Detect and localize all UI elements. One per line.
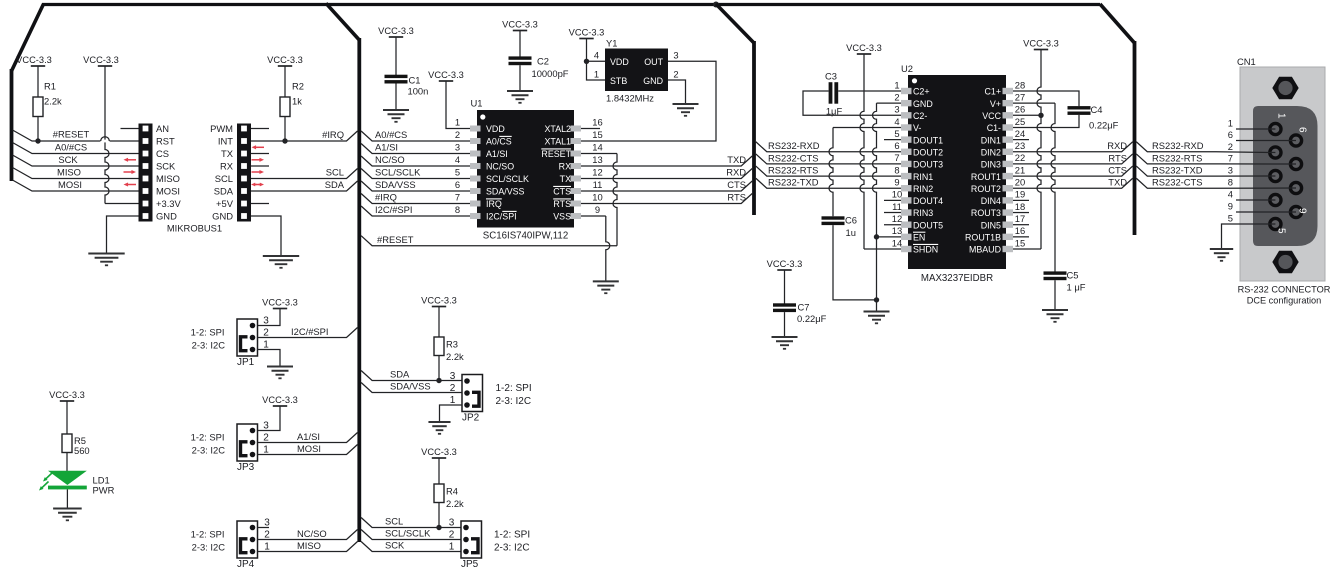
svg-text:TXD: TXD [727,154,746,165]
svg-text:VCC-3.3: VCC-3.3 [16,55,52,65]
svg-text:JP4: JP4 [237,559,255,570]
svg-text:1-2: SPI: 1-2: SPI [191,432,225,443]
wire U2 VCC pin 26 [1013,114,1041,116]
U2 pin 24 stub wire (n.c.) [1013,139,1029,141]
wire RTS from U1 to bus rail 2 [581,194,752,204]
wire A0/#CS from center bus to U1 [361,131,470,141]
wire Y1 OUT to U1 XTAL1 [581,61,716,141]
svg-text:CS: CS [156,148,169,159]
svg-text:DIN4: DIN4 [981,196,1001,206]
svg-text:CTS: CTS [727,179,746,190]
svg-text:+5V: +5V [216,198,234,209]
svg-text:24: 24 [1015,128,1025,139]
wire RS232-CTS from bus rail 2 to U2 [756,154,901,164]
svg-text:5: 5 [1276,228,1287,234]
CN1 pin index 4 wire [1236,199,1275,201]
svg-text:7: 7 [455,192,460,203]
U2 pin 5 stub [901,136,912,142]
U2 pin 11 stub wire (n.c.) [884,212,901,214]
svg-text:SCL/SCLK: SCL/SCLK [375,167,421,178]
svg-text:VCC-3.3: VCC-3.3 [83,55,119,65]
svg-text:MOSI: MOSI [156,186,180,197]
svg-text:2.2k: 2.2k [44,96,62,107]
svg-text:13: 13 [592,154,602,165]
ground (CN1 pin 5) [1210,248,1233,250]
svg-text:27: 27 [1015,91,1025,102]
svg-text:VCC-3.3: VCC-3.3 [428,70,464,80]
svg-text:VCC-3.3: VCC-3.3 [378,26,414,36]
wire #RESET from center bus to U1 RESET [361,236,617,246]
svg-text:OUT: OUT [644,57,663,67]
svg-text:C1+: C1+ [984,87,1001,97]
svg-text:RESET: RESET [541,149,571,159]
svg-text:C5: C5 [1067,270,1079,281]
svg-text:VCC-3.3: VCC-3.3 [49,390,85,400]
U1 pin 15 stub [571,138,582,144]
svg-text:1: 1 [1228,118,1233,129]
U2 pin 10 stub [901,197,912,203]
U2 pin 16 stub [1003,234,1014,240]
CN1 pin sockets left column [1270,123,1281,134]
wire SDA/VSS from center bus to JP2 pin 2 [361,383,462,393]
jumper JP1 [237,319,258,356]
svg-text:PWR: PWR [93,485,115,496]
svg-text:R1: R1 [44,81,56,92]
svg-text:1u: 1u [846,227,856,238]
U1 overline RESET [541,148,571,150]
svg-text:12: 12 [592,167,602,178]
svg-text:11: 11 [593,179,603,190]
svg-text:RST: RST [156,136,175,147]
svg-text:20: 20 [1015,177,1025,188]
capacitor C4 [1068,106,1091,109]
svg-text:16: 16 [592,117,602,128]
svg-text:4: 4 [455,154,460,165]
capacitor C1 [385,75,408,78]
ground (Y1) [673,103,699,105]
ground (LD1) [53,508,82,510]
svg-text:DOUT2: DOUT2 [913,147,943,157]
svg-text:V-: V- [913,123,921,133]
svg-text:DOUT4: DOUT4 [913,196,943,206]
svg-text:1: 1 [450,395,456,406]
capacitor C6 [822,216,845,219]
CN1 D-sub shell [1253,106,1318,246]
bus rail 1 diagonal [326,3,359,40]
svg-text:14: 14 [592,142,602,153]
svg-text:VCC-3.3: VCC-3.3 [502,20,538,30]
U1 pin 1 stub [470,126,481,132]
svg-text:VCC-3.3: VCC-3.3 [767,259,803,269]
svg-text:1: 1 [263,444,269,455]
svg-text:PWM: PWM [210,123,233,134]
svg-text:DIN1: DIN1 [981,135,1001,145]
wire VCC to C1 [395,37,397,75]
wire NC/SO from JP4 to center bus [258,530,358,540]
svg-text:9: 9 [894,177,899,188]
wire U2 GND pin 2 down to ground with hops [877,102,902,104]
svg-text:RS232-CTS: RS232-CTS [1152,177,1203,188]
svg-text:1 μF: 1 μF [1067,282,1086,293]
svg-text:RS232-CTS: RS232-CTS [768,152,819,163]
wire R3 to SDA net [438,356,440,381]
ground (C2) [507,90,533,92]
svg-text:RX: RX [559,162,571,172]
U1 pin 14 stub [571,151,582,157]
wire U1 RESET pin 14 vertical with hops [581,153,617,155]
red data-direction arrow RX right [252,171,262,173]
U1 overline IRQ [486,198,502,200]
svg-text:CTS: CTS [1108,164,1127,175]
svg-text:RTS: RTS [1108,152,1127,163]
svg-text:560: 560 [74,445,90,456]
red data-direction arrow CS/SCK left [127,159,137,161]
CN1 pin index 6 wire [1236,140,1296,142]
svg-text:U1: U1 [471,98,483,109]
svg-text:STB: STB [610,76,627,86]
svg-text:VDD: VDD [486,124,505,134]
svg-text:23: 23 [1015,140,1025,151]
U2 pin 19 stub wire (n.c.) [1013,199,1029,201]
resistor R1 [33,97,43,117]
svg-text:ROUT2: ROUT2 [971,184,1001,194]
svg-text:EN: EN [913,233,925,243]
wire R1 to #RESET net [37,117,39,142]
svg-text:2.2k: 2.2k [446,351,464,362]
wire Y1 GND to ground [668,80,686,104]
svg-text:1: 1 [894,79,899,90]
wire #IRQ from INT pin to center bus [251,131,358,141]
U2 pin 6 stub [901,149,912,155]
oscillator Y1 [605,49,668,92]
svg-text:SDA/VSS: SDA/VSS [390,381,431,392]
jumper JP3 [237,424,258,461]
svg-text:RS-232 CONNECTOR: RS-232 CONNECTOR [1238,285,1331,295]
resistor R3 [434,337,444,356]
svg-text:#RESET: #RESET [53,129,90,140]
U1 pin 10 stub [571,201,582,207]
svg-text:SDA: SDA [214,186,234,197]
svg-text:V+: V+ [990,99,1001,109]
svg-text:10000pF: 10000pF [532,68,569,79]
wire RS232-TXD from bus rail 3 to CN1 pin 3 [1136,166,1275,176]
bus rail 3 [1133,41,1137,235]
svg-text:4: 4 [594,50,599,61]
wire RS232-RTS from bus rail 3 to CN1 pin 7 [1136,154,1296,164]
wire VCC to R2 [284,66,286,97]
junction dot R4/SCL [436,525,441,530]
ground (left header) [88,253,124,255]
wire VCC to U1 pin 1 [446,81,470,129]
resistor R5 [62,434,72,453]
svg-text:DIN2: DIN2 [981,147,1001,157]
red data-direction arrow SCK/MISO right [124,171,134,173]
wire VCC to R4 [438,458,440,484]
svg-text:VCC-3.3: VCC-3.3 [846,43,882,53]
svg-text:MISO: MISO [297,540,321,551]
red data-direction arrow SDA both [254,184,257,186]
svg-text:25: 25 [1015,116,1025,127]
hop of #RESET wire over +3.3V supply wire [100,140,109,143]
wire SCK from center bus to JP5 pin 1 [361,542,461,552]
wire SCL from SCL pin to center bus [251,169,358,179]
svg-text:3: 3 [455,142,460,153]
svg-text:SCL: SCL [385,516,403,527]
junction dot Y1 VDD [584,59,589,64]
wire U2 V- to C6 [833,126,901,128]
svg-text:MAX3237EIDBR: MAX3237EIDBR [921,273,993,284]
bus rail 2 diagonal [716,4,754,43]
svg-text:SCL/SCLK: SCL/SCLK [385,528,431,539]
CN1 pin index 9 wire [1236,211,1296,213]
U2 pin 5 stub wire (n.c.) [884,139,901,141]
U2 pin 1 stub [901,88,912,94]
svg-text:RIN2: RIN2 [913,184,933,194]
wire MISO from left bus to MISO pin [13,168,139,179]
wire VCC to C7 [784,270,786,304]
wire VCC to R1 [37,66,39,97]
wire RS232-RTS from bus rail 2 to U2 [756,166,901,176]
svg-text:2-3: I2C: 2-3: I2C [494,542,530,553]
border frame top bus line [42,3,1100,6]
svg-text:RS232-RXD: RS232-RXD [1152,140,1204,151]
LED LD1 [48,471,87,485]
ground (right header) [263,255,299,257]
svg-text:DIN3: DIN3 [981,160,1001,170]
svg-text:1: 1 [594,69,599,80]
svg-text:A0/CS: A0/CS [486,137,512,147]
ground (JP2) [428,421,450,423]
bus rail 2 [752,41,756,215]
wire R4 to SCL net [438,503,440,528]
U2 pin 26 stub [1003,112,1014,118]
svg-text:DOUT5: DOUT5 [913,220,943,230]
U2 pin 8 stub [901,173,912,179]
resistor R4 [434,484,444,503]
svg-text:ROUT1: ROUT1 [971,172,1001,182]
U2 pin 24 stub [1003,136,1014,142]
border frame top-left diagonal [12,4,44,71]
svg-text:10: 10 [592,192,602,203]
svg-text:6: 6 [455,179,460,190]
vertical C6 feed with hops [829,127,833,216]
svg-text:0.22μF: 0.22μF [797,313,827,324]
wire MOSI from left bus to MOSI pin [13,180,139,191]
wire CTS from U2 to bus rail 3 [1013,166,1133,176]
U2 pin 21 stub [1003,173,1014,179]
svg-text:A1/SI: A1/SI [375,142,398,153]
ground (C7) [772,336,798,338]
svg-text:1: 1 [1276,113,1287,119]
svg-text:RXD: RXD [1107,140,1127,151]
svg-text:2-3: I2C: 2-3: I2C [496,396,532,407]
wire U1 VSS to ground with hop over #RESET [581,215,606,217]
red data-direction arrow MISO/MOSI left [127,184,137,186]
junction dot #IRQ/R2 [282,138,287,143]
wire VCC to JP1 pin 3 [258,309,281,326]
wire #RESET from left bus to RST pin [13,130,139,141]
jumper JP4 [237,521,258,558]
svg-text:12: 12 [892,213,902,224]
wire C7 to ground [784,312,786,337]
svg-text:ROUT3: ROUT3 [971,208,1001,218]
U2 pin 10 stub wire (n.c.) [884,199,901,201]
svg-text:VDD: VDD [610,57,629,67]
svg-text:1k: 1k [292,96,302,107]
jumper JP2 [462,375,483,412]
svg-text:SC16IS740IPW,112: SC16IS740IPW,112 [483,231,568,242]
svg-text:2-3: I2C: 2-3: I2C [192,444,226,455]
svg-text:3: 3 [894,104,899,115]
svg-text:NC/SO: NC/SO [297,528,327,539]
U1 pin 11 stub [571,188,582,194]
svg-text:5: 5 [1228,213,1233,224]
U1 pin 6 stub [470,188,481,194]
svg-text:DCE configuration: DCE configuration [1247,296,1322,306]
svg-text:GND: GND [212,211,233,222]
svg-text:3: 3 [673,50,678,61]
svg-text:JP2: JP2 [462,413,480,424]
svg-text:RTS: RTS [727,192,746,203]
wire NC/SO from center bus to U1 [361,156,470,166]
svg-text:TXD: TXD [1108,177,1127,188]
wire MOSI from JP3 to center bus [258,445,358,455]
svg-text:9: 9 [1228,201,1233,212]
U2 pin 2 stub [901,100,912,106]
wire RXD from U1 to bus rail 2 [581,169,752,179]
svg-text:6: 6 [1228,129,1233,140]
svg-text:RS232-TXD: RS232-TXD [768,177,819,188]
svg-text:JP3: JP3 [237,462,255,473]
U2 pin 12 stub [901,221,912,227]
wire TXD from U2 to bus rail 3 [1013,178,1133,188]
svg-text:R2: R2 [292,81,304,92]
connector CN1 body [1240,67,1325,281]
bus rail 3 diagonal [1100,4,1135,43]
svg-text:C3: C3 [825,71,837,82]
svg-text:1: 1 [264,541,270,552]
U2 pin 22 stub [1003,161,1014,167]
capacitor C5 [1044,271,1067,274]
wire GND right header to ground [251,216,281,256]
U2 pin 18 stub [1003,209,1014,215]
svg-text:C1: C1 [409,75,421,86]
svg-text:4: 4 [1228,189,1233,200]
wire VCC to Y1 VDD and STB [587,39,606,81]
CN1 hex screw bottom [1272,251,1298,273]
svg-text:8: 8 [1228,177,1233,188]
wire SCL from center bus to JP5 pin 3 [361,518,461,528]
pin RX stub [251,165,269,167]
U1 overline SPI (I2C/SPI) [502,210,516,212]
svg-text:AN: AN [156,123,169,134]
wire CTS from U1 to bus rail 2 [581,181,752,191]
svg-text:MIKROBUS1: MIKROBUS1 [167,223,222,234]
svg-text:8: 8 [455,204,460,215]
wire SDA from SDA pin to center bus [251,181,358,191]
wire RXD from U2 to bus rail 3 [1013,142,1133,152]
svg-text:6: 6 [894,140,899,151]
svg-text:8: 8 [894,164,899,175]
svg-text:Y1: Y1 [606,38,617,49]
ground (U1 VSS) [593,280,619,282]
svg-text:2: 2 [673,69,678,80]
svg-text:VCC-3.3: VCC-3.3 [421,447,457,457]
svg-text:DOUT3: DOUT3 [913,160,943,170]
U2 pin 19 stub [1003,197,1014,203]
svg-text:XTAL1: XTAL1 [545,137,572,147]
svg-text:VCC-3.3: VCC-3.3 [262,298,298,308]
jumper JP5 [461,521,482,558]
pin header MIKROBUS1 left column [139,124,153,222]
U2 pin 16 stub wire (n.c.) [1013,236,1029,238]
svg-text:DIN5: DIN5 [981,220,1001,230]
LED emission arrows [45,473,52,480]
svg-text:2-3: I2C: 2-3: I2C [192,541,226,552]
wire VCC down to MBAUD with hops and VCC junction [1037,50,1041,250]
U2 pin 23 stub [1003,149,1014,155]
svg-text:3: 3 [263,315,269,326]
wire R2 to #IRQ net [284,117,286,142]
IC U1 SC16IS740 [477,110,574,228]
svg-text:3: 3 [1228,165,1233,176]
svg-text:C4: C4 [1091,104,1103,115]
svg-text:2: 2 [449,529,455,540]
svg-text:#RESET: #RESET [377,234,414,245]
svg-text:SCK: SCK [385,540,405,551]
svg-text:RX: RX [220,161,234,172]
U2 pin 12 stub wire (n.c.) [884,224,901,226]
svg-text:2-3: I2C: 2-3: I2C [192,339,226,350]
svg-text:CN1: CN1 [1237,56,1256,67]
svg-text:26: 26 [1015,104,1025,115]
wire VCC to R3 [438,307,440,338]
svg-text:SCL: SCL [326,167,344,178]
bus rail 1 (center divider) [357,38,361,542]
svg-text:GND: GND [913,99,933,109]
wire SCL/SCLK from center bus to JP5 pin 2 [361,530,461,540]
svg-text:RS232-RTS: RS232-RTS [1152,152,1202,163]
svg-text:INT: INT [218,136,233,147]
svg-text:VCC: VCC [982,111,1001,121]
U1 pin 4 stub [470,163,481,169]
wire VCC to U2 SHDN pin 14 with hops [860,54,864,249]
svg-text:4: 4 [894,116,899,127]
svg-text:3: 3 [449,517,455,528]
svg-text:C2-: C2- [913,111,927,121]
svg-text:21: 21 [1015,164,1025,175]
svg-text:U2: U2 [901,63,913,74]
svg-text:RXD: RXD [726,167,746,178]
svg-text:2.2k: 2.2k [446,498,464,509]
svg-text:9: 9 [1297,208,1308,214]
resistor R2 [280,97,290,117]
svg-text:RIN3: RIN3 [913,208,933,218]
wire C5 to ground [1054,280,1056,310]
svg-text:2: 2 [264,529,270,540]
CN1 pin index 1 wire [1236,128,1275,130]
svg-text:GND: GND [643,76,663,86]
svg-text:MOSI: MOSI [297,443,321,454]
wire MISO from JP4 to center bus [258,542,358,552]
svg-text:#IRQ: #IRQ [375,192,397,203]
svg-text:RIN1: RIN1 [913,172,933,182]
svg-text:MISO: MISO [57,167,81,178]
wire I2C/#SPI from center bus to U1 [361,206,470,216]
wire A0/#CS from left bus to CS pin [13,143,139,154]
junction dot #RESET/R1 [35,138,40,143]
wire I2C/#SPI from JP1 to center bus [258,328,358,338]
